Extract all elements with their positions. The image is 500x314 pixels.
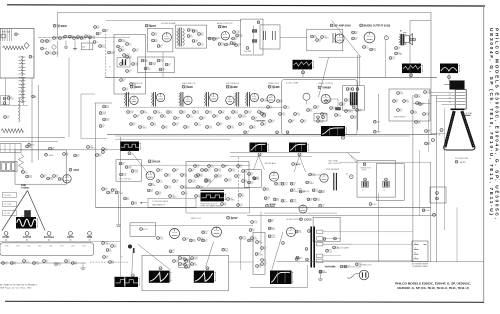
CRT feed wire 3 — [437, 98, 456, 100]
CRT grid line 3 — [456, 98, 465, 100]
svg-text:1 MEG: 1 MEG — [118, 193, 124, 195]
oscillogram photo F — [289, 143, 307, 153]
svg-text:82: 82 — [256, 179, 258, 181]
svg-text:C44: C44 — [428, 130, 431, 132]
capacitor C118 — [53, 52, 56, 55]
svg-text:C12: C12 — [172, 250, 175, 252]
brightness ctl part 9 — [423, 113, 426, 116]
resistor R126 — [133, 49, 136, 52]
capacitor C135 — [165, 63, 168, 66]
svg-text:C19: C19 — [271, 220, 274, 222]
svg-text:R17: R17 — [172, 195, 175, 197]
B+ riser x428.6 — [428, 99, 430, 152]
svg-text:C55: C55 — [322, 205, 325, 207]
blob F wire L — [294, 156, 300, 172]
svg-text:C218: C218 — [427, 91, 431, 93]
svg-text:HORIZ SYNC 60 V P-P: HORIZ SYNC 60 V P-P — [201, 203, 218, 205]
audio coupling part 1 — [208, 37, 211, 40]
svg-text:PILOT LAMP: PILOT LAMP — [337, 247, 349, 250]
sync label 6AU8A — [148, 160, 151, 163]
video section top rule — [105, 76, 437, 78]
sound takeoff diagonal — [319, 58, 329, 98]
ratio det secondary — [183, 29, 185, 46]
wire yoke down — [378, 193, 380, 262]
oscillogram photo G bar — [201, 189, 225, 191]
svg-text:120: 120 — [129, 45, 132, 47]
svg-text:47: 47 — [398, 49, 400, 51]
svg-text:47: 47 — [225, 167, 227, 169]
resistor R120 — [117, 45, 120, 48]
svg-text:4.5 MC TRAP: 4.5 MC TRAP — [286, 82, 299, 85]
svg-text:5-25: 5-25 — [366, 48, 369, 50]
video amp part 18 — [340, 103, 343, 106]
svg-text:470K: 470K — [425, 210, 430, 212]
bottom mid box — [142, 255, 229, 290]
fuse callout — [333, 246, 336, 249]
left top corner wire — [95, 102, 112, 104]
AGC part 14 — [205, 180, 208, 183]
IF strip part 5 — [154, 111, 157, 114]
svg-text:47: 47 — [396, 102, 398, 104]
svg-text:10: 10 — [123, 81, 125, 83]
svg-text:AGC: AGC — [296, 163, 301, 166]
wire mid bottom — [229, 261, 254, 263]
flyback core — [25, 211, 31, 218]
IF strip part 9 — [180, 111, 183, 114]
ion trap part2 — [436, 197, 439, 200]
dark part vert — [128, 245, 131, 248]
AT tap right — [424, 244, 427, 246]
tuner lower box — [1, 96, 10, 105]
diag to blob H — [132, 249, 133, 274]
svg-text:C81: C81 — [292, 120, 295, 122]
b+ col part 2 — [99, 112, 102, 115]
svg-text:R24: R24 — [235, 111, 238, 113]
capacitor C126 — [119, 39, 122, 42]
tube note 6BT8 — [145, 24, 148, 27]
svg-text:R8: R8 — [293, 189, 295, 191]
svg-text:R24: R24 — [144, 59, 147, 61]
svg-text:82: 82 — [317, 108, 319, 110]
svg-text:47: 47 — [129, 72, 131, 74]
svg-text:.22: .22 — [400, 111, 402, 113]
IF strip part 27 — [184, 126, 187, 129]
svg-text:R52: R52 — [134, 202, 137, 204]
right vert box — [253, 232, 265, 274]
sync box part 12 — [225, 179, 228, 182]
svg-text:6AU8A: 6AU8A — [153, 160, 161, 163]
svg-text:120: 120 — [190, 37, 193, 39]
svg-text:5-25: 5-25 — [26, 262, 29, 264]
svg-text:R214: R214 — [123, 173, 127, 175]
brightness ctl part 6 — [419, 103, 422, 106]
takeoff box — [314, 114, 327, 122]
svg-text:C81: C81 — [220, 123, 223, 125]
clamp part 3 — [248, 181, 251, 184]
svg-text:R214: R214 — [106, 118, 110, 120]
AGC part 15 — [156, 192, 159, 195]
svg-text:R71: R71 — [97, 26, 100, 28]
AGC part 4 — [165, 186, 168, 189]
audio low part 5 — [63, 153, 66, 156]
disc bar 2 — [125, 59, 127, 65]
svg-text:R33: R33 — [400, 92, 403, 94]
svg-text:C81: C81 — [176, 169, 179, 171]
vert lin part 7 — [173, 260, 176, 263]
svg-text:160P4: 160P4 — [460, 162, 467, 164]
horiz part b2 — [249, 229, 252, 232]
svg-text:R33: R33 — [168, 186, 171, 188]
capacitor C114 — [64, 35, 67, 38]
CRT funnel right — [462, 111, 474, 147]
svg-text:R214: R214 — [239, 34, 243, 36]
yoke lower part — [369, 203, 372, 206]
svg-text:.22: .22 — [392, 59, 394, 61]
svg-text:R52: R52 — [165, 126, 168, 128]
capacitor C112 — [53, 37, 56, 40]
power terminal 3 — [317, 243, 323, 246]
svg-text:C7: C7 — [160, 180, 162, 182]
svg-text:R24: R24 — [208, 179, 211, 181]
svg-text:C9: C9 — [164, 115, 166, 117]
svg-text:TO DEFL: TO DEFL — [4, 195, 12, 197]
svg-text:R214: R214 — [182, 263, 186, 265]
CRT riser x436.5 — [436, 95, 438, 262]
svg-text:.01: .01 — [359, 111, 361, 113]
svg-text:R17: R17 — [324, 36, 327, 38]
svg-text:R52: R52 — [224, 203, 227, 205]
tuner box — [0, 29, 34, 79]
AGC part 10 — [197, 174, 200, 177]
svg-text:C31: C31 — [150, 189, 153, 191]
svg-text:10: 10 — [238, 177, 240, 179]
tube V203 IF stage — [210, 93, 218, 101]
resistor R131 — [152, 39, 155, 42]
svg-text:VOLUME: VOLUME — [244, 51, 252, 53]
svg-text:5-25: 5-25 — [190, 117, 193, 119]
AC plug — [359, 270, 369, 280]
svg-text:470: 470 — [168, 176, 171, 178]
sound takeoff coil — [303, 93, 310, 100]
svg-text:R61: R61 — [83, 37, 86, 39]
oscillogram photo H — [115, 277, 139, 287]
trap coil bar 1 — [350, 92, 352, 105]
svg-text:C218: C218 — [320, 120, 324, 122]
svg-text:AT TRANSFORMER: AT TRANSFORMER — [412, 263, 429, 266]
capacitor C119 — [85, 35, 88, 38]
keyed AGC part 1 — [253, 177, 256, 180]
svg-text:R17: R17 — [309, 181, 312, 183]
heater part 1 — [2, 262, 5, 265]
wire left bottom drop — [120, 258, 122, 277]
meter part 3 — [131, 170, 134, 173]
svg-text:6BZ6: 6BZ6 — [5, 245, 9, 247]
tube V206 IF stage — [267, 95, 275, 103]
CRT feed wire 4 — [437, 101, 456, 103]
svg-text:47: 47 — [46, 262, 48, 264]
svg-text:6BT8: 6BT8 — [150, 24, 157, 28]
takeoff part b — [322, 116, 325, 119]
svg-text:C9: C9 — [242, 194, 244, 196]
video amp part 12 — [314, 106, 317, 109]
B+ riser x419.8 — [419, 150, 421, 216]
vert riser x240.8 — [240, 240, 242, 271]
capacitor C137 — [192, 40, 195, 43]
svg-text:UE3004F, G, SP (Ch. 7E10, 7E10: UE3004F, G, SP (Ch. 7E10, 7E10-U, 7E11, … — [397, 286, 469, 290]
svg-text:R33: R33 — [135, 63, 138, 65]
sync box part 10 — [205, 179, 208, 182]
CRT feed wire 2 — [431, 95, 455, 97]
svg-text:1 MEG: 1 MEG — [264, 101, 270, 103]
oscillogram photo B (CRT cathode) — [440, 64, 458, 74]
power terminal 2 — [317, 237, 323, 240]
svg-text:C44: C44 — [77, 154, 80, 156]
svg-text:R52: R52 — [114, 245, 117, 247]
resistor R112 — [41, 47, 44, 50]
svg-text:R8: R8 — [254, 237, 256, 239]
oscillogram photo I — [149, 271, 170, 283]
svg-text:300: 300 — [82, 47, 85, 49]
tube V404 vert osc sec — [299, 205, 307, 213]
svg-text:.05: .05 — [343, 105, 345, 107]
IF strip part 25 — [162, 126, 165, 129]
trap bottom part — [352, 106, 355, 109]
AGC part 11 — [189, 180, 192, 183]
delay line box — [0, 144, 21, 153]
svg-text:C31: C31 — [319, 39, 322, 41]
jack pin 1 — [2, 163, 6, 171]
disc bar 1 — [122, 59, 124, 65]
keyed AGC part 17 — [319, 204, 322, 207]
svg-text:82: 82 — [198, 177, 200, 179]
svg-text:C44: C44 — [267, 197, 270, 199]
svg-text:R214: R214 — [254, 221, 258, 223]
IF transformer Z201 — [153, 92, 155, 107]
resistor R124 — [126, 43, 129, 46]
svg-text:C218: C218 — [102, 112, 106, 114]
svg-text:C218: C218 — [242, 115, 246, 117]
svg-text:R90: R90 — [231, 126, 234, 128]
svg-text:6T8: 6T8 — [223, 25, 228, 29]
tube V201 IF stage — [156, 93, 164, 101]
keyed AGC part 12 — [273, 198, 276, 201]
disc lower part 2 — [130, 83, 133, 86]
svg-text:470: 470 — [83, 39, 86, 41]
AGC part 12 — [197, 186, 200, 189]
svg-text:.0047: .0047 — [194, 259, 198, 261]
svg-text:.0047: .0047 — [278, 184, 282, 186]
svg-text:6BY6: 6BY6 — [67, 235, 74, 239]
svg-text:10: 10 — [96, 42, 98, 44]
oscillogram photo D (video out) — [321, 126, 345, 136]
meter part 1 — [119, 162, 122, 165]
trap box Z101 — [81, 43, 93, 50]
svg-text:C7: C7 — [198, 123, 200, 125]
trap riser — [359, 55, 361, 86]
svg-text:R71: R71 — [418, 95, 421, 97]
jack pin 2 — [7, 163, 11, 171]
svg-text:1 MEG: 1 MEG — [230, 200, 236, 202]
resistor R156 — [389, 57, 392, 60]
noise chain b — [47, 177, 50, 180]
svg-text:C7: C7 — [110, 191, 112, 193]
svg-text:82: 82 — [160, 47, 162, 49]
capacitor C132 — [152, 33, 155, 36]
AGC part 8 — [181, 186, 184, 189]
diode CR102 — [187, 35, 190, 38]
svg-text:.01: .01 — [195, 42, 197, 44]
svg-text:C12: C12 — [293, 183, 296, 185]
svg-text:C19: C19 — [238, 44, 241, 46]
svg-text:C9: C9 — [109, 249, 111, 251]
svg-text:.01: .01 — [77, 156, 79, 158]
heater part 8 — [71, 262, 74, 265]
svg-text:R17: R17 — [90, 146, 93, 148]
svg-text:C19: C19 — [192, 169, 195, 171]
vert stage part 4 — [198, 238, 201, 241]
left riser x38 — [37, 85, 39, 160]
capacitor C127 — [119, 49, 122, 52]
IF B+ rail — [120, 106, 283, 108]
IF strip part 20 — [252, 117, 255, 120]
vert lin part 2 — [185, 260, 188, 263]
svg-text:C81: C81 — [225, 165, 228, 167]
svg-text:C218: C218 — [134, 170, 138, 172]
border bottom rule — [5, 301, 484, 302]
svg-text:C55: C55 — [251, 181, 254, 183]
sync box part 19 — [237, 204, 240, 207]
svg-text:C44: C44 — [160, 169, 163, 171]
svg-text:C31: C31 — [343, 103, 346, 105]
clamp part 2 — [253, 177, 256, 180]
edge wire y138.6 — [81, 138, 107, 140]
jack block — [1, 161, 18, 171]
svg-text:TO YOKE: TO YOKE — [4, 204, 13, 206]
svg-text:CRB: CRB — [87, 235, 93, 239]
volume inner wire — [252, 25, 254, 54]
svg-text:6BZ6: 6BZ6 — [60, 245, 64, 247]
svg-text:C55: C55 — [155, 33, 158, 35]
audio out label — [360, 24, 363, 27]
svg-text:C55: C55 — [240, 165, 243, 167]
svg-text:TUNER: TUNER — [58, 24, 67, 28]
keyed AGC part 4 — [281, 182, 284, 185]
brightness ctl part 7 — [411, 111, 414, 114]
svg-text:R52: R52 — [195, 30, 198, 32]
deflection callout box 1 — [3, 193, 17, 198]
video amp part 2 — [267, 106, 270, 109]
svg-text:C31: C31 — [7, 116, 10, 118]
power terminal 5 — [317, 259, 323, 262]
vert blocking osc pot — [140, 228, 143, 231]
horiz osc part — [319, 270, 322, 273]
svg-text:.0047: .0047 — [271, 237, 275, 239]
keyed AGC part 14 — [290, 199, 293, 202]
horiz section top rule — [247, 215, 437, 217]
svg-text:C19: C19 — [122, 162, 125, 164]
svg-text:C9: C9 — [127, 197, 129, 199]
brightness ctl part 4 — [397, 109, 400, 112]
svg-text:470: 470 — [201, 35, 204, 37]
svg-text:R90: R90 — [209, 111, 212, 113]
phono coupling C170 — [115, 191, 118, 194]
left wire y149.8 — [0, 149, 120, 151]
svg-text:AUDIO OUTPUT 6AQ5: AUDIO OUTPUT 6AQ5 — [364, 25, 391, 28]
mid rule y152.8 — [230, 152, 360, 154]
svg-text:VIDEO DET: VIDEO DET — [268, 83, 280, 85]
power part a — [319, 271, 322, 274]
svg-text:AC-HEATED NOTATION SCHEMATIC: AC-HEATED NOTATION SCHEMATIC — [0, 283, 38, 286]
sound section top wire — [106, 19, 241, 21]
svg-text:R17: R17 — [258, 253, 261, 255]
svg-text:R90: R90 — [221, 43, 224, 45]
phono ground — [116, 224, 121, 226]
video amp part 6 — [284, 106, 287, 109]
IF strip part 13 — [206, 111, 209, 114]
svg-text:R8: R8 — [259, 241, 261, 243]
svg-text:.01: .01 — [106, 258, 108, 260]
left coil — [19, 98, 21, 122]
capacitor C115 — [69, 35, 72, 38]
horiz phase part — [350, 175, 354, 179]
svg-text:R90: R90 — [297, 113, 300, 115]
svg-text:R8: R8 — [314, 35, 316, 37]
video amp part 4 — [269, 120, 272, 123]
ground g1 — [65, 41, 67, 48]
svg-text:.22: .22 — [228, 45, 230, 47]
heater wire — [0, 262, 86, 264]
photo C junction — [302, 71, 305, 74]
diode CR101 — [187, 29, 190, 32]
svg-text:C31: C31 — [176, 260, 179, 262]
wire tuner to IF bus — [58, 12, 432, 14]
video B+ riser — [378, 94, 380, 132]
svg-text:C9: C9 — [105, 148, 107, 150]
IF strip bottom bus — [107, 134, 437, 136]
tube V403 horiz output — [286, 227, 295, 236]
IF strip part 29 — [206, 126, 209, 129]
ratio det transformer core — [178, 28, 180, 47]
svg-text:C55: C55 — [242, 123, 245, 125]
svg-text:C81: C81 — [203, 117, 206, 119]
brightness ctl part 2 — [393, 100, 396, 103]
mixer diamond 2 — [52, 45, 57, 50]
svg-text:R90: R90 — [317, 198, 320, 200]
ion trap part — [436, 192, 439, 195]
photo B2 junction — [128, 152, 131, 155]
IF strip part 24 — [151, 123, 154, 126]
svg-text:1ST VIDEO IF: 1ST VIDEO IF — [130, 83, 144, 85]
noise inv label — [45, 153, 48, 156]
svg-text:.0047: .0047 — [152, 64, 156, 66]
IF strip part 2 — [134, 115, 137, 118]
svg-text:82: 82 — [264, 125, 266, 127]
damper part 3 — [255, 253, 258, 256]
b+ col part 1 — [103, 105, 106, 108]
xfmr left part 1 — [295, 230, 298, 233]
capacitor C121 — [96, 32, 99, 35]
sync cathode a — [149, 183, 152, 186]
svg-text:R52: R52 — [418, 121, 421, 123]
svg-text:R90: R90 — [406, 100, 409, 102]
meter box — [116, 160, 141, 182]
svg-text:R214: R214 — [426, 113, 430, 115]
svg-text:6AM8: 6AM8 — [231, 85, 238, 89]
tuner AGC node — [32, 95, 35, 98]
keyed AGC part 2 — [263, 188, 266, 191]
tube V402 vert out — [212, 227, 222, 237]
svg-text:C44: C44 — [272, 120, 275, 122]
